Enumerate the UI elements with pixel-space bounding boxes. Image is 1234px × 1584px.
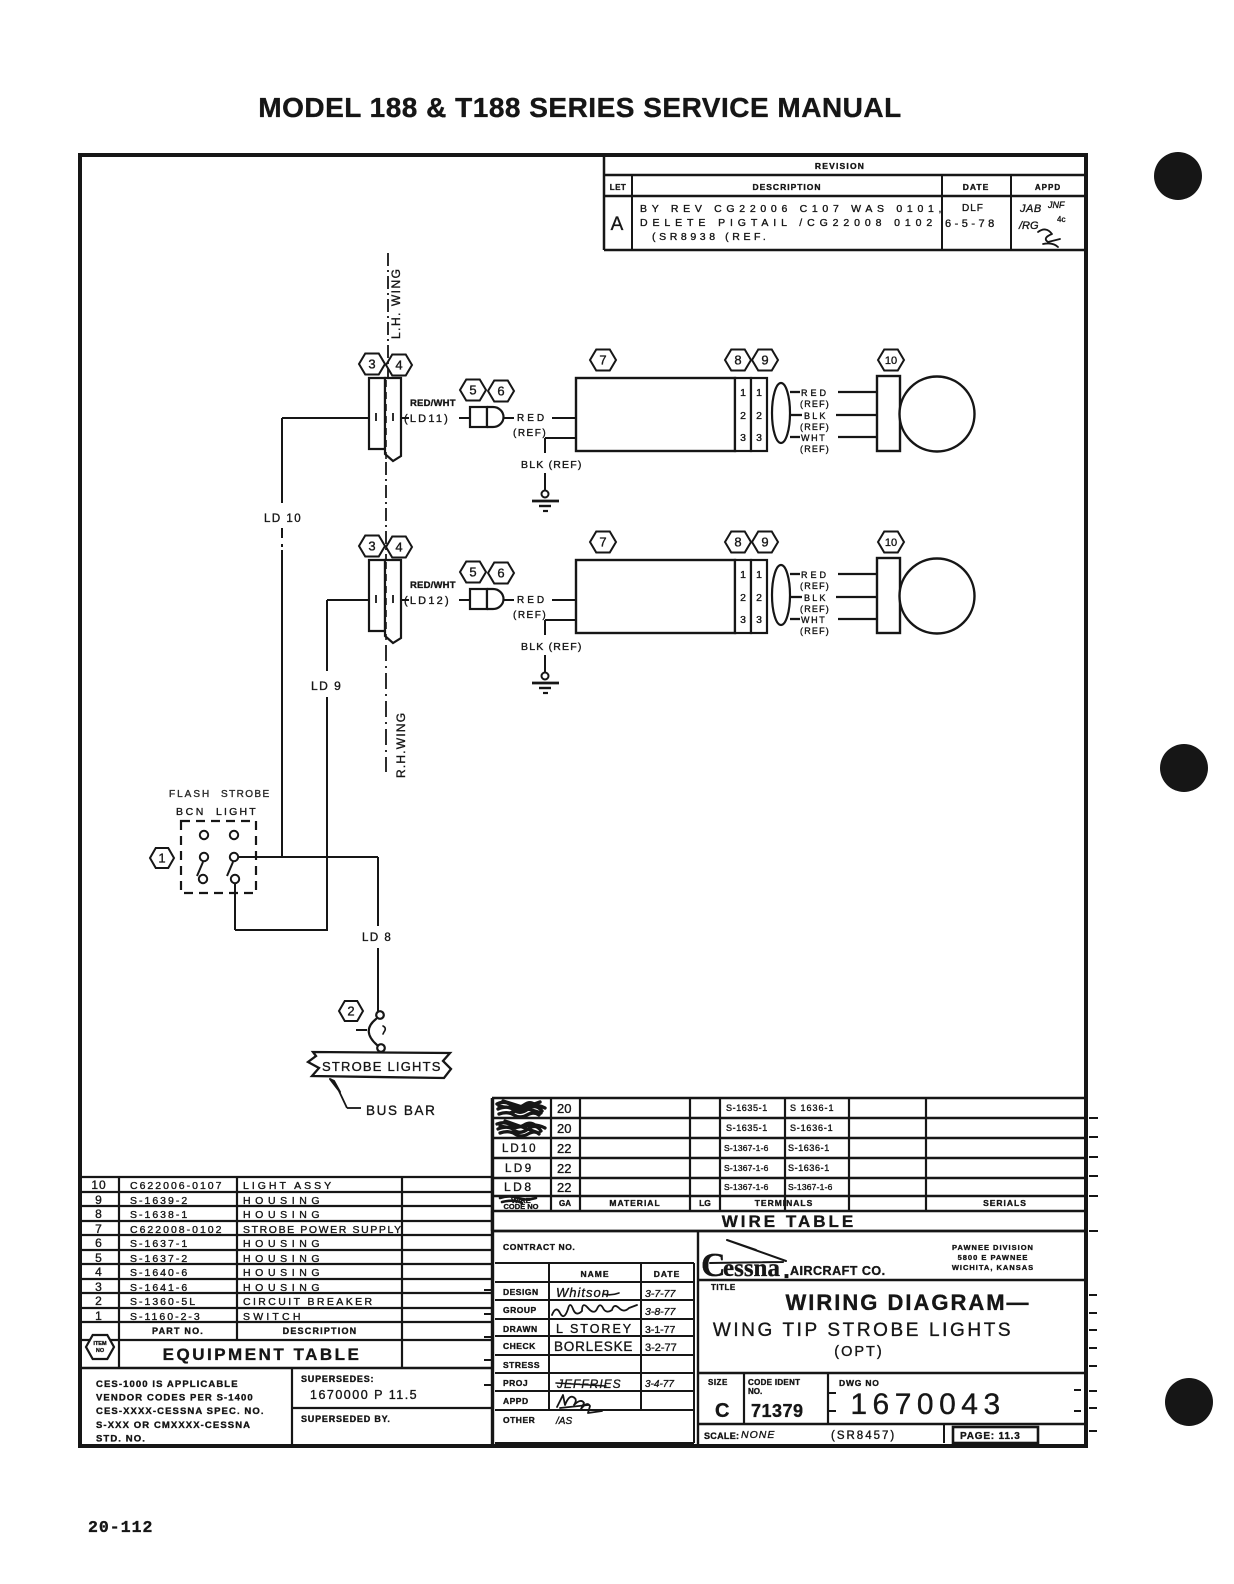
light assy base (item 10) — [877, 376, 900, 451]
svg-text:1: 1 — [740, 569, 746, 581]
connector oval — [772, 565, 790, 625]
svg-text:DATE: DATE — [963, 182, 990, 192]
svg-text:RED/WHT: RED/WHT — [410, 580, 456, 591]
svg-text:7: 7 — [95, 1222, 103, 1236]
wire code scribble row 1 (RED/WHT LD11) — [497, 1101, 545, 1117]
svg-text:2: 2 — [756, 410, 762, 422]
svg-text:LD9: LD9 — [505, 1163, 534, 1175]
svg-text:OTHER: OTHER — [503, 1415, 535, 1425]
svg-text:L.H. WING: L.H. WING — [389, 267, 403, 339]
svg-text:RED: RED — [517, 595, 547, 606]
svg-text:CES-1000 IS APPLICABLE: CES-1000 IS APPLICABLE — [96, 1379, 239, 1390]
revision table — [603, 155, 606, 250]
svg-text:6: 6 — [497, 384, 504, 399]
svg-text:71379: 71379 — [751, 1401, 804, 1421]
svg-text:S-1637-2: S-1637-2 — [130, 1253, 189, 1265]
wire code scribble row 2 (RED/WHT LD12) — [497, 1121, 545, 1136]
svg-text:TITLE: TITLE — [711, 1283, 736, 1292]
registration tick marks right of title block — [1089, 1294, 1097, 1296]
svg-text:(REF): (REF) — [800, 604, 830, 614]
svg-text:BCN: BCN — [176, 806, 206, 818]
power supply pin housings (items 8,9) — [735, 560, 751, 633]
page box — [953, 1427, 1038, 1443]
svg-text:NAME: NAME — [580, 1269, 609, 1279]
svg-text:BUS BAR: BUS BAR — [366, 1103, 436, 1118]
svg-text:FLASH: FLASH — [169, 789, 211, 800]
svg-text:S-1367-1-6: S-1367-1-6 — [724, 1163, 769, 1173]
svg-text:22: 22 — [557, 1161, 571, 1176]
svg-text:3: 3 — [740, 614, 746, 626]
svg-text:10: 10 — [885, 355, 897, 367]
svg-text:(LD11): (LD11) — [404, 413, 450, 425]
wire RED/WHT (LD11) — [401, 417, 409, 419]
svg-text:SUPERSEDED BY.: SUPERSEDED BY. — [301, 1414, 391, 1424]
svg-text:DRAWN: DRAWN — [503, 1324, 538, 1334]
hexagon callout 1 — [150, 848, 174, 868]
svg-text:GA: GA — [559, 1199, 571, 1208]
svg-text:S-1367-1-6: S-1367-1-6 — [788, 1182, 833, 1192]
svg-text:JNF: JNF — [1047, 200, 1065, 210]
svg-text:6: 6 — [95, 1236, 103, 1250]
svg-text:WHT: WHT — [801, 615, 826, 625]
svg-text:/AS: /AS — [555, 1416, 572, 1427]
svg-text:(REF): (REF) — [800, 399, 830, 409]
wire LD9 from R.H. light — [327, 599, 369, 601]
svg-text:8: 8 — [734, 535, 741, 550]
svg-text:BLK: BLK — [804, 411, 828, 421]
svg-text:MODEL 188 & T188 SERIES SERVIC: MODEL 188 & T188 SERIES SERVICE MANUAL — [258, 92, 901, 123]
svg-text:3-2-77: 3-2-77 — [645, 1342, 677, 1354]
svg-text:5: 5 — [95, 1251, 103, 1265]
svg-text:9: 9 — [95, 1193, 103, 1207]
svg-text:22: 22 — [557, 1180, 571, 1195]
svg-text:22: 22 — [557, 1141, 571, 1156]
svg-text:5800 E PAWNEE: 5800 E PAWNEE — [958, 1253, 1029, 1262]
svg-text:CONTRACT NO.: CONTRACT NO. — [503, 1242, 575, 1252]
hexagon callout 7 — [590, 350, 616, 371]
switch S1 dashed box (item 1) — [181, 821, 256, 893]
svg-text:NO.: NO. — [748, 1387, 762, 1396]
svg-text:WIRING DIAGRAM—: WIRING DIAGRAM— — [785, 1290, 1030, 1315]
svg-text:4: 4 — [395, 540, 402, 555]
hexagon callout 4 — [386, 355, 412, 376]
svg-text:TERMINALS: TERMINALS — [755, 1198, 814, 1208]
wire RED (REF) to power supply — [503, 417, 514, 419]
svg-text:(SR8938 (REF.: (SR8938 (REF. — [652, 231, 769, 243]
svg-text:3: 3 — [368, 357, 375, 372]
svg-text:S-XXX OR CMXXXX-CESSNA: S-XXX OR CMXXXX-CESSNA — [96, 1420, 251, 1431]
svg-text:1: 1 — [756, 387, 762, 399]
connector oval — [772, 383, 790, 443]
switch terminals — [200, 831, 208, 839]
hexagon callout 3 — [359, 354, 385, 375]
svg-text:ITEM: ITEM — [93, 1341, 107, 1347]
svg-text:RED: RED — [517, 413, 547, 424]
svg-text:WICHITA, KANSAS: WICHITA, KANSAS — [952, 1263, 1034, 1272]
svg-text:BLK: BLK — [804, 593, 828, 603]
svg-text:1: 1 — [95, 1309, 103, 1323]
svg-text:3-7-77: 3-7-77 — [645, 1288, 677, 1300]
svg-text:4c: 4c — [1057, 215, 1065, 224]
hexagon callout 2 — [339, 1001, 363, 1021]
svg-text:2: 2 — [95, 1294, 103, 1308]
svg-text:/RG: /RG — [1018, 220, 1039, 232]
hexagon callout 9 — [752, 532, 778, 553]
hexagon callout 10 — [878, 350, 904, 371]
svg-text:20: 20 — [557, 1121, 571, 1136]
svg-text:2: 2 — [740, 592, 746, 604]
svg-text:(REF): (REF) — [800, 444, 830, 454]
item no symbol — [86, 1335, 114, 1359]
equipment table — [82, 1176, 493, 1178]
registration tick marks left of title block — [484, 1289, 491, 1291]
svg-text:(LD12): (LD12) — [404, 595, 451, 607]
svg-text:HOUSING: HOUSING — [243, 1209, 324, 1221]
svg-text:C: C — [701, 1247, 726, 1284]
wing disconnect plug pair (items 3,4) LD11 — [369, 378, 385, 449]
wire from switch to LD8 — [238, 856, 378, 858]
svg-text:1: 1 — [158, 851, 165, 866]
svg-text:HOUSING: HOUSING — [243, 1267, 324, 1279]
svg-text:APPD: APPD — [503, 1396, 529, 1406]
svg-text:C: C — [715, 1400, 729, 1422]
svg-text:3: 3 — [740, 432, 746, 444]
svg-text:7: 7 — [599, 535, 606, 550]
svg-text:STROBE POWER SUPPLY: STROBE POWER SUPPLY — [243, 1224, 403, 1236]
hexagon callout 8 — [725, 532, 751, 553]
wire WHT (REF) to light — [790, 618, 800, 620]
svg-text:8: 8 — [734, 353, 741, 368]
svg-text:1: 1 — [756, 569, 762, 581]
svg-text:S-1637-1: S-1637-1 — [130, 1238, 189, 1250]
hexagon callout 5 — [460, 380, 486, 401]
svg-text:CHECK: CHECK — [503, 1341, 536, 1351]
svg-text:STRESS: STRESS — [503, 1360, 540, 1370]
strobe power supply box (item 7) — [576, 378, 735, 451]
svg-text:HOUSING: HOUSING — [243, 1195, 324, 1207]
splice connector (items 5,6) — [470, 407, 487, 427]
svg-text:PAWNEE DIVISION: PAWNEE DIVISION — [952, 1243, 1034, 1252]
svg-text:BORLESKE: BORLESKE — [554, 1339, 633, 1354]
svg-text:DESIGN: DESIGN — [503, 1287, 539, 1297]
svg-text:4: 4 — [95, 1265, 103, 1279]
svg-text:10: 10 — [885, 537, 897, 549]
svg-text:5: 5 — [469, 565, 476, 580]
svg-text:SCALE:: SCALE: — [704, 1431, 739, 1441]
svg-text:SUPERSEDES:: SUPERSEDES: — [301, 1374, 374, 1384]
strobe light bulb — [900, 559, 975, 634]
cessna logo block — [697, 1231, 699, 1446]
ground symbol — [542, 673, 549, 680]
wire RED (REF) to light — [790, 391, 800, 393]
svg-text:3: 3 — [756, 432, 762, 444]
svg-text:3: 3 — [368, 539, 375, 554]
svg-text:BLK (REF): BLK (REF) — [521, 459, 583, 471]
svg-text:S-1636-1: S-1636-1 — [790, 1123, 833, 1133]
svg-text:S-1367-1-6: S-1367-1-6 — [724, 1182, 769, 1192]
svg-text:LET: LET — [610, 183, 627, 192]
svg-text:2: 2 — [347, 1004, 354, 1019]
svg-text:(REF): (REF) — [800, 626, 830, 636]
svg-text:NO: NO — [96, 1348, 105, 1354]
bus bar leader arrow — [330, 1079, 340, 1092]
svg-text:3: 3 — [95, 1280, 103, 1294]
svg-text:S-1635-1: S-1635-1 — [726, 1103, 768, 1113]
svg-text:RED/WHT: RED/WHT — [410, 398, 456, 409]
light assy base (item 10) — [877, 558, 900, 633]
svg-text:(SR8457): (SR8457) — [831, 1430, 896, 1442]
svg-text:3-4-77: 3-4-77 — [645, 1379, 674, 1390]
strobe power supply box (item 7) — [576, 560, 735, 633]
wire LD8 down to breaker — [377, 857, 379, 926]
svg-text:LIGHT ASSY: LIGHT ASSY — [243, 1180, 334, 1192]
STROBE LIGHTS bus banner — [308, 1052, 451, 1078]
hexagon callout 4 — [386, 537, 412, 558]
supersedes cell — [291, 1368, 293, 1446]
svg-text:C622006-0107: C622006-0107 — [130, 1180, 223, 1192]
svg-text:6: 6 — [497, 566, 504, 581]
svg-text:SIZE: SIZE — [708, 1378, 728, 1387]
svg-text:SERIALS: SERIALS — [983, 1198, 1027, 1208]
svg-text:STD. NO.: STD. NO. — [96, 1433, 146, 1444]
wire RED/WHT (LD12) — [401, 599, 409, 601]
svg-text:LD 9: LD 9 — [311, 679, 342, 693]
svg-text:1670000 P 11.5: 1670000 P 11.5 — [310, 1388, 418, 1402]
group signature — [552, 1305, 637, 1316]
wire table — [492, 1097, 1086, 1099]
svg-text:S 1636-1: S 1636-1 — [790, 1103, 835, 1113]
svg-text:WING TIP STROBE LIGHTS: WING TIP STROBE LIGHTS — [713, 1320, 1013, 1341]
svg-text:3-1-77: 3-1-77 — [645, 1324, 676, 1336]
svg-text:REVISION: REVISION — [815, 161, 865, 171]
switch levers — [197, 862, 203, 876]
svg-text:LD8: LD8 — [504, 1180, 534, 1194]
svg-text:(REF): (REF) — [800, 581, 830, 591]
svg-text:NONE: NONE — [741, 1429, 775, 1441]
svg-text:CES-XXXX-CESSNA SPEC. NO.: CES-XXXX-CESSNA SPEC. NO. — [96, 1406, 265, 1417]
svg-text:1: 1 — [740, 387, 746, 399]
svg-text:4: 4 — [395, 358, 402, 373]
svg-text:7: 7 — [599, 353, 606, 368]
svg-text:20: 20 — [557, 1101, 571, 1116]
svg-text:DATE: DATE — [654, 1269, 681, 1279]
svg-text:(OPT): (OPT) — [834, 1344, 883, 1360]
svg-text:20-112: 20-112 — [88, 1518, 153, 1537]
svg-text:R.H.WING: R.H.WING — [394, 712, 408, 778]
svg-text:S-1360-5L: S-1360-5L — [130, 1296, 197, 1308]
R.H. wing station dash-dot centerline — [385, 645, 387, 772]
svg-text:DELETE PIGTAIL /CG22008 0102: DELETE PIGTAIL /CG22008 0102 — [640, 217, 937, 229]
svg-text:essna: essna — [723, 1255, 780, 1282]
svg-text:AIRCRAFT CO.: AIRCRAFT CO. — [790, 1264, 886, 1278]
hexagon callout 3 — [359, 536, 385, 557]
centerline through disconnects — [385, 380, 387, 460]
svg-text:(REF): (REF) — [513, 428, 547, 439]
hexagon callout 8 — [725, 350, 751, 371]
hexagon callout 9 — [752, 350, 778, 371]
svg-text:S-1641-6: S-1641-6 — [130, 1282, 189, 1294]
hexagon callout 7 — [590, 532, 616, 553]
svg-text:L STOREY: L STOREY — [556, 1322, 633, 1336]
registration tick marks right of wire table — [1089, 1117, 1098, 1119]
svg-text:1670043: 1670043 — [850, 1388, 1005, 1421]
L.H. wing station dash-dot centerline — [387, 253, 389, 378]
svg-text:PAGE: 11.3: PAGE: 11.3 — [960, 1431, 1021, 1442]
svg-text:DESCRIPTION: DESCRIPTION — [283, 1326, 358, 1336]
svg-text:9: 9 — [761, 353, 768, 368]
svg-text:C622008-0102: C622008-0102 — [130, 1224, 223, 1236]
svg-text:WIRE TABLE: WIRE TABLE — [722, 1212, 857, 1231]
svg-text:APPD: APPD — [1035, 183, 1061, 192]
svg-text:(REF): (REF) — [513, 610, 547, 621]
hexagon callout 6 — [488, 381, 514, 402]
svg-text:STROBE LIGHTS: STROBE LIGHTS — [322, 1059, 442, 1074]
svg-text:S-1636-1: S-1636-1 — [788, 1143, 830, 1153]
svg-text:LIGHT: LIGHT — [216, 806, 258, 818]
svg-text:GROUP: GROUP — [503, 1305, 537, 1315]
svg-text:S-1636-1: S-1636-1 — [788, 1163, 830, 1173]
wire BLK (REF) to light — [790, 414, 802, 416]
svg-text:A: A — [611, 214, 624, 235]
svg-text:S-1638-1: S-1638-1 — [130, 1209, 189, 1221]
hole punch dot bottom — [1165, 1378, 1213, 1426]
svg-text:LD10: LD10 — [502, 1143, 538, 1155]
svg-text:BY REV CG22006 C107 WAS 0101,: BY REV CG22006 C107 WAS 0101, — [640, 203, 946, 215]
hole punch dot top — [1154, 152, 1202, 200]
svg-text:CIRCUIT BREAKER: CIRCUIT BREAKER — [243, 1296, 375, 1308]
wire RED (REF) to power supply — [503, 599, 514, 601]
splice connector (items 5,6) — [470, 589, 487, 609]
svg-text:3-8-77: 3-8-77 — [645, 1306, 677, 1318]
svg-text:9: 9 — [761, 535, 768, 550]
svg-text:EQUIPMENT TABLE: EQUIPMENT TABLE — [163, 1345, 362, 1364]
hole punch dot middle — [1160, 744, 1208, 792]
ground symbol — [542, 491, 549, 498]
svg-text:6-5-78: 6-5-78 — [945, 218, 998, 230]
svg-text:DLF: DLF — [962, 203, 984, 214]
hexagon callout 5 — [460, 562, 486, 583]
svg-text:LD 8: LD 8 — [362, 932, 392, 944]
appd signature — [557, 1395, 602, 1413]
title block: contract / names — [492, 1230, 1086, 1233]
svg-text:RED: RED — [801, 570, 829, 580]
wing disconnect plug pair (items 3,4) LD12 — [369, 560, 385, 631]
svg-text:RED: RED — [801, 388, 829, 398]
svg-text:PART NO.: PART NO. — [152, 1326, 204, 1336]
svg-text:8: 8 — [95, 1207, 103, 1221]
wire RED (REF) to light — [790, 573, 800, 575]
wire LD9 to switch terminal — [235, 929, 327, 931]
svg-text:BLK (REF): BLK (REF) — [521, 641, 583, 653]
svg-text:CODE IDENT: CODE IDENT — [748, 1378, 800, 1387]
wire BLK (REF) to ground — [545, 619, 576, 621]
power supply pin housings (items 8,9) — [735, 378, 751, 451]
svg-text:5: 5 — [469, 383, 476, 398]
svg-text:LD 10: LD 10 — [264, 513, 302, 525]
svg-text:DESCRIPTION: DESCRIPTION — [752, 182, 821, 192]
svg-text:3: 3 — [756, 614, 762, 626]
svg-text:HOUSING: HOUSING — [243, 1253, 324, 1265]
drawing sheet frame — [80, 155, 1086, 1446]
wire WHT (REF) to light — [790, 436, 800, 438]
svg-text:S-1160-2-3: S-1160-2-3 — [130, 1311, 202, 1323]
svg-text:PROJ: PROJ — [503, 1378, 528, 1388]
svg-text:HOUSING: HOUSING — [243, 1238, 324, 1250]
svg-text:2: 2 — [740, 410, 746, 422]
svg-text:WHT: WHT — [801, 433, 826, 443]
wire BLK (REF) to ground — [545, 437, 576, 439]
wire BLK (REF) to light — [790, 596, 802, 598]
svg-text:SWITCH: SWITCH — [243, 1311, 304, 1323]
svg-text:(REF): (REF) — [800, 422, 830, 432]
svg-text:STROBE: STROBE — [221, 789, 271, 800]
hexagon callout 10 — [878, 532, 904, 553]
svg-text:VENDOR CODES PER S-1400: VENDOR CODES PER S-1400 — [96, 1393, 254, 1404]
svg-text:10: 10 — [91, 1178, 106, 1192]
svg-text:HOUSING: HOUSING — [243, 1282, 324, 1294]
hexagon callout 6 — [488, 563, 514, 584]
size / code ident / dwg no row — [698, 1372, 1086, 1375]
svg-text:DWG NO: DWG NO — [839, 1378, 880, 1388]
circuit breaker (item 2) — [376, 1011, 384, 1019]
svg-text:S-1367-1-6: S-1367-1-6 — [724, 1143, 769, 1153]
svg-text:MATERIAL: MATERIAL — [609, 1198, 660, 1208]
svg-text:S-1640-6: S-1640-6 — [130, 1267, 189, 1279]
svg-text:LG: LG — [699, 1198, 711, 1208]
svg-text:JAB: JAB — [1019, 203, 1042, 215]
svg-text:S-1639-2: S-1639-2 — [130, 1195, 189, 1207]
wire LD10 from L.H. light — [282, 417, 369, 419]
svg-text:S-1635-1: S-1635-1 — [726, 1123, 768, 1133]
svg-text:Whitson: Whitson — [556, 1285, 610, 1300]
strobe light bulb — [900, 377, 975, 452]
svg-text:2: 2 — [756, 592, 762, 604]
